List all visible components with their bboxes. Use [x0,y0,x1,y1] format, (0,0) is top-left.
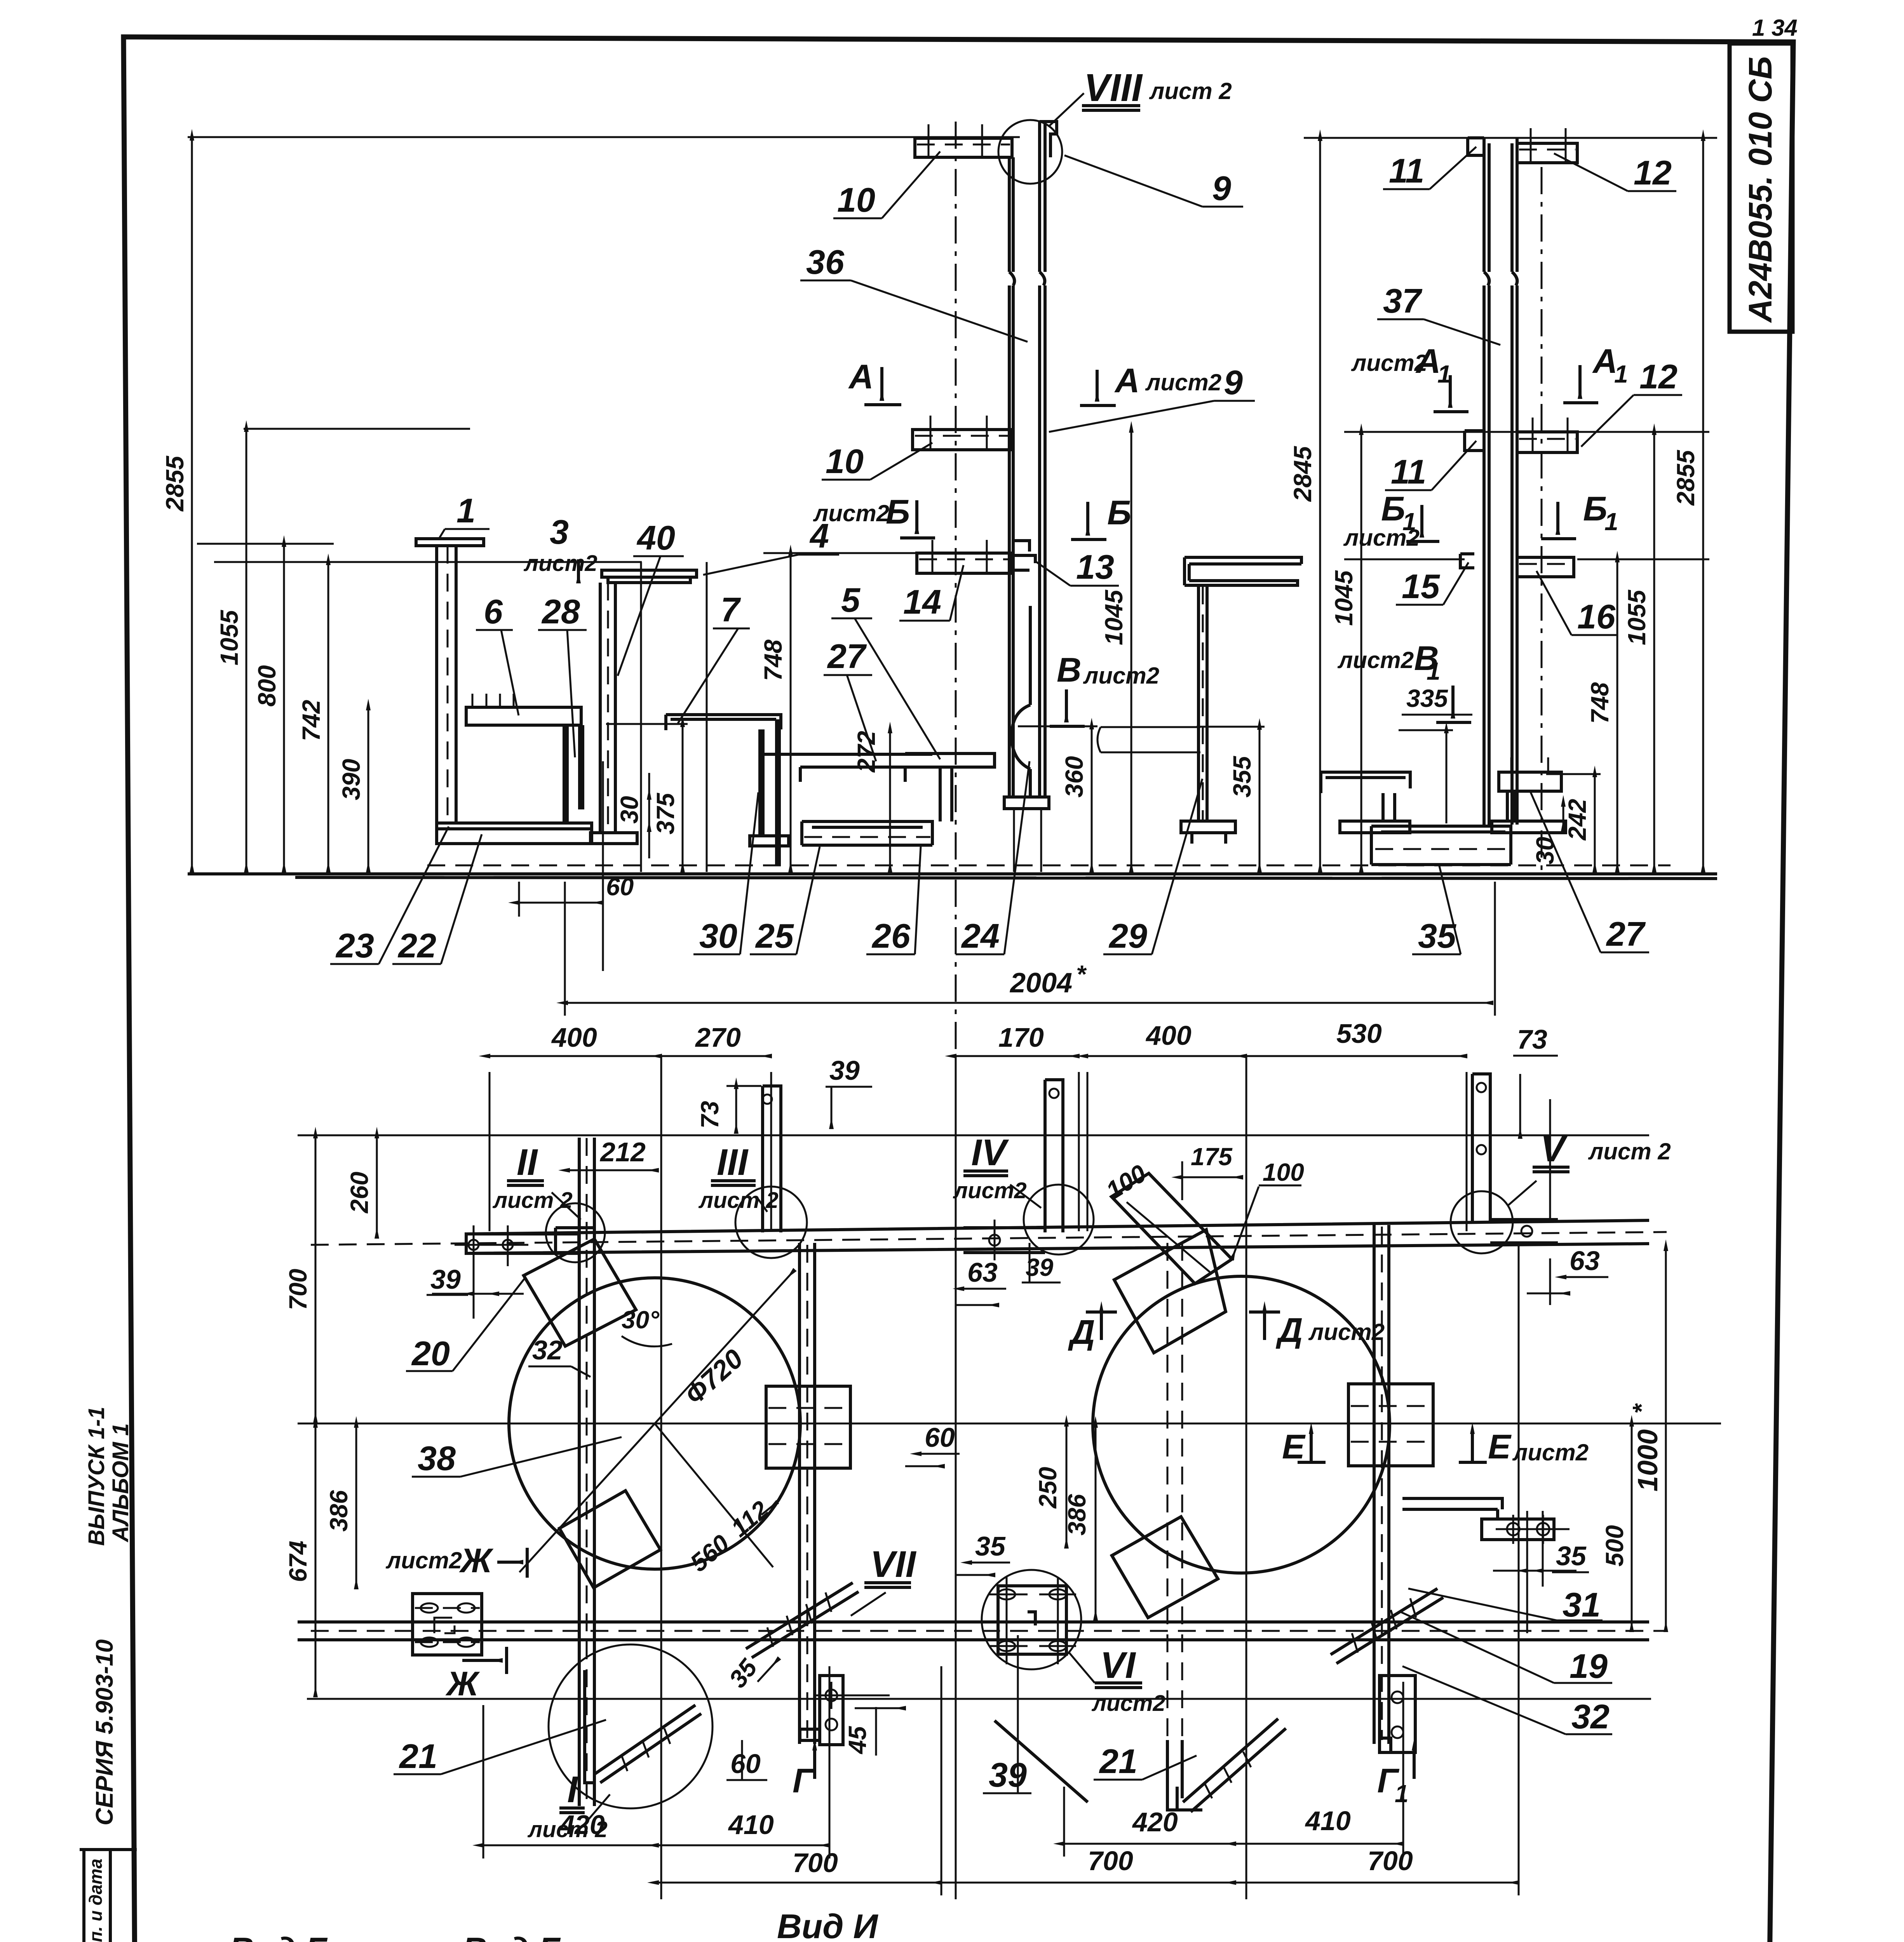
dim 60 bottom-left [726,1740,767,1780]
svg-text:38: 38 [418,1439,456,1477]
callout 30 [693,792,758,955]
svg-text:270: 270 [695,1022,741,1053]
svg-text:Е: Е [1488,1427,1512,1466]
level line right B1 [1344,559,1709,560]
svg-text:II: II [517,1142,538,1183]
callout 35 [1412,866,1461,955]
callout 13 [1035,548,1119,586]
marker E left [1282,1427,1326,1466]
svg-text:2855: 2855 [1672,449,1700,506]
svg-text:500: 500 [1601,1525,1629,1567]
callout 11 top [1383,147,1476,190]
svg-text:1045: 1045 [1330,570,1358,626]
svg-text:212: 212 [599,1137,646,1167]
dim 242 [1546,774,1601,872]
central bench plate [1185,557,1301,585]
callout 10 mid [822,442,932,480]
svg-text:Д: Д [1275,1311,1303,1349]
svg-text:Вид Г: Вид Г [462,1930,561,1942]
diag brace right [1331,1589,1443,1664]
svg-text:1045: 1045 [1100,589,1128,645]
plan top edge line [298,1135,1649,1136]
svg-text:1055: 1055 [215,609,243,665]
post 1 top plate [416,539,484,546]
circle left [509,1278,800,1569]
svg-text:Д: Д [1068,1313,1095,1351]
svg-text:390: 390 [337,759,365,800]
dim 35 right [1493,1541,1589,1572]
level line A (1045 left) [763,552,927,554]
svg-text:25: 25 [755,917,794,955]
svg-text:420: 420 [1132,1807,1178,1837]
tab II corner [546,1203,605,1262]
bottom diag brace left mirror [995,1721,1088,1802]
view I title [771,1907,890,1942]
plate 14c [917,540,1010,573]
callout 32 [528,1335,591,1377]
svg-text:СЕРИЯ 5.903-10: СЕРИЯ 5.903-10 [91,1639,118,1825]
post 36 bottom bracket 24 [1004,606,1049,872]
svg-text:10: 10 [837,181,875,219]
svg-text:Ж: Ж [459,1541,494,1580]
svg-text:лист2: лист2 [953,1178,1027,1203]
svg-text:1: 1 [456,491,476,530]
plate Zh [413,1594,482,1655]
callout 9 top [1064,155,1243,207]
center axis line [298,1423,1721,1425]
svg-text:*: * [1627,1403,1655,1414]
svg-text:30: 30 [1531,837,1559,864]
vertical post mid plan [800,1243,815,1744]
callout 32 right [1402,1666,1612,1736]
svg-text:20: 20 [411,1334,450,1373]
dim 375 [606,724,688,872]
svg-text:А: А [848,357,874,396]
level line 742 [214,562,707,872]
svg-text:лист2: лист2 [1337,647,1414,673]
bench 6 plate [466,694,581,725]
base channel 22 [437,823,592,844]
detail circle VI left [982,1570,1081,1669]
svg-text:лист2: лист2 [1308,1319,1385,1345]
dim 2845 [1289,140,1320,872]
section A1 right [1563,342,1628,403]
callout 40 [618,519,684,676]
post 37 centerline [1541,167,1543,874]
dim 45 [843,1707,905,1756]
bench 29 plate [1097,727,1200,752]
section B left [813,492,935,538]
svg-text:175: 175 [1191,1143,1233,1171]
svg-text:530: 530 [1336,1018,1382,1049]
svg-text:1055: 1055 [1623,589,1651,645]
dim 39 top [826,1055,872,1128]
left dim 260 [345,1138,377,1238]
svg-text:23: 23 [335,926,374,965]
dim 272 [852,731,890,872]
tab V [1451,1074,1558,1253]
svg-text:13: 13 [1076,548,1114,586]
bracket 13 [1013,541,1035,570]
svg-text:386: 386 [325,1490,353,1531]
diag 560 left [655,1423,777,1577]
callout 1 [438,491,490,540]
bottom diag brace right [1177,1719,1286,1812]
dim 60 mid [905,1422,960,1466]
svg-text:12: 12 [1639,357,1678,396]
callout 22 [392,834,482,965]
marker D left [1068,1312,1117,1351]
bench 27 right [1492,757,1566,833]
plate 15-16 [1460,554,1574,577]
extension verticals right [1527,1511,1543,1633]
dim 1000 right [1627,1250,1666,1631]
callout 7 [678,590,750,723]
svg-text:9: 9 [1212,169,1231,207]
svg-text:3: 3 [550,513,569,551]
callout 9 mid [1049,363,1255,432]
channel 25-26 [802,821,932,845]
post 36 centerline [955,122,957,1060]
callout 39 bottom [983,1635,1031,1794]
vertical post right plan [1374,1225,1389,1744]
svg-text:лист2: лист2 [1512,1439,1589,1465]
svg-text:12: 12 [1634,153,1672,192]
dim 2855 left [161,140,192,872]
svg-text:Б: Б [1583,489,1607,528]
svg-text:39: 39 [430,1264,461,1295]
svg-text:1 34: 1 34 [1752,15,1798,41]
svg-text:V: V [1540,1128,1568,1169]
svg-text:А24В055. 010 СБ: А24В055. 010 СБ [1742,56,1779,323]
svg-text:45: 45 [843,1726,871,1755]
bottom dims 420/410 right [1064,1682,1403,1857]
svg-text:700: 700 [1367,1846,1413,1876]
top extension line right [1304,137,1717,139]
bench left of post37 [1321,772,1410,833]
svg-text:29: 29 [1108,917,1147,955]
svg-text:63: 63 [1570,1246,1600,1276]
callout 29 [1103,779,1202,955]
svg-text:21: 21 [399,1737,437,1775]
callout 38 [412,1437,622,1477]
top beam [311,1220,1667,1253]
callout 10 top [833,151,940,219]
marker Zh bottom [445,1647,507,1703]
callout 5 [831,581,940,759]
svg-text:32: 32 [1571,1697,1610,1736]
svg-text:260: 260 [345,1172,373,1214]
dim 800 [253,546,284,872]
svg-text:60: 60 [925,1422,955,1453]
svg-text:15: 15 [1402,567,1440,606]
dim 63 right [1527,1246,1608,1305]
top dim row 400/530 [1087,1018,1467,1899]
svg-text:лист2: лист2 [385,1547,462,1573]
callout 12 mid [1581,357,1682,447]
svg-text:1: 1 [1614,360,1628,388]
svg-text:7: 7 [721,590,741,629]
svg-text:2004: 2004 [1009,968,1072,999]
dim 742 [297,564,328,872]
svg-text:9: 9 [1224,363,1243,402]
svg-text:60: 60 [606,873,634,901]
callout 20 [406,1279,524,1373]
marker II [492,1142,581,1220]
svg-text:Г: Г [793,1761,815,1800]
bench 27 plates middle [762,754,932,782]
svg-text:36: 36 [806,243,845,281]
level line 1055 [244,428,470,430]
svg-text:21: 21 [1099,1742,1138,1780]
callout 28 [538,592,587,757]
svg-text:6: 6 [484,592,503,631]
dim 73 mid rotated [696,1086,761,1133]
svg-text:170: 170 [998,1022,1044,1053]
callout 27 right [1531,792,1649,953]
svg-text:VIII: VIII [1084,66,1143,110]
svg-text:73: 73 [696,1101,724,1128]
dim 73 right [1513,1024,1558,1220]
svg-text:лист2: лист2 [1145,369,1221,395]
callout 36 [800,243,1028,342]
rotated square lower-left [559,1491,660,1588]
svg-text:АЛЬБОМ 1: АЛЬБОМ 1 [108,1423,133,1543]
svg-text:24: 24 [961,917,1000,955]
vertical post left plan [579,1138,594,1806]
dim 35 mid [956,1531,1010,1575]
marker Zh top [385,1541,527,1580]
svg-text:748: 748 [1586,682,1614,724]
svg-text:400: 400 [551,1022,597,1053]
dim 748 right [1586,562,1617,872]
callout 6 [476,592,519,715]
svg-text:73: 73 [1517,1024,1547,1055]
svg-text:30: 30 [699,917,737,955]
svg-text:лист2: лист2 [1091,1691,1165,1716]
part 5 plate [905,753,995,821]
callout 11 mid [1385,441,1476,491]
svg-text:700: 700 [284,1269,312,1310]
svg-text:1: 1 [1427,657,1441,685]
svg-text:В: В [1057,651,1082,689]
dim 1055 right [1623,434,1654,872]
svg-text:VII: VII [870,1544,917,1585]
dim 386 right [1063,1427,1096,1620]
svg-text:ВЫПУСК 1-1: ВЫПУСК 1-1 [84,1407,109,1546]
svg-text:37: 37 [1383,282,1423,320]
section A left [848,357,901,405]
svg-text:10: 10 [826,442,864,480]
svg-text:1000: 1000 [1632,1429,1664,1491]
dim 30 left [615,773,649,858]
callout 15 [1396,562,1469,606]
phi720 diagonal left [519,1270,794,1572]
dim 35 brace left [723,1653,779,1693]
dim 748 center [759,555,791,872]
svg-text:лист2: лист2 [1083,663,1159,689]
plate 10 mid [913,416,1012,450]
section A1 left [1351,342,1469,412]
marker III [698,1142,779,1213]
left dim 700 [284,1138,315,1422]
svg-text:748: 748 [759,639,787,681]
central bench leg [1181,585,1235,844]
svg-text:355: 355 [1228,755,1256,797]
section A right [1080,361,1221,405]
svg-text:Вид Г: Вид Г [229,1930,328,1942]
view G title [223,1930,328,1942]
level line right A1 [1344,431,1709,433]
svg-text:VI: VI [1100,1644,1136,1686]
level line 800 [197,543,334,545]
svg-text:800: 800 [253,665,281,707]
foot G1 [1380,1676,1415,1752]
hatched plate right [1348,1384,1433,1466]
svg-text:1: 1 [1604,508,1618,536]
svg-text:35: 35 [1418,917,1456,955]
svg-text:27: 27 [827,637,867,675]
svg-text:лист2: лист2 [1343,525,1420,551]
svg-text:19: 19 [1570,1647,1608,1685]
post 37 [1484,138,1517,825]
dim 2004 [565,882,1495,1016]
document number box (top right, rotated) [1730,44,1793,332]
marker G1 [1377,1750,1414,1808]
dim 39 mid2 [1022,1243,1061,1282]
baseline [188,865,1717,879]
svg-text:700: 700 [793,1848,838,1878]
section B1 right [1541,489,1618,539]
svg-text:700: 700 [1088,1846,1133,1876]
svg-text:30: 30 [615,796,643,823]
svg-text:30°: 30° [622,1306,659,1334]
callout 12 top [1554,153,1676,192]
bottom dims 420/410 left [483,1666,829,1858]
left end bracket [455,1225,579,1319]
svg-text:39: 39 [989,1756,1027,1794]
svg-text:27: 27 [1606,915,1646,953]
post 1 stem [437,546,456,823]
svg-text:I: I [567,1769,578,1810]
svg-text:11: 11 [1391,452,1426,491]
marker IV [953,1132,1041,1208]
left margin stamp boxes [84,1850,137,1942]
hatched plate left [766,1386,850,1468]
top dim row 170 [956,1022,1079,1899]
svg-text:14: 14 [903,583,941,621]
bench 7 plate [666,715,781,730]
callout 21 right [1094,1742,1197,1780]
dim 60 bottom [519,761,634,971]
svg-text:375: 375 [652,792,679,834]
dim 335 [1399,684,1472,823]
callout 16 [1536,571,1618,636]
callout 3 [523,513,598,583]
svg-text:742: 742 [297,700,325,741]
svg-text:31: 31 [1563,1585,1601,1624]
svg-text:16: 16 [1577,597,1616,636]
marker VI left [1069,1644,1165,1716]
marker V [1507,1128,1671,1206]
bench 7 legs [750,719,789,866]
callout 19 [1401,1612,1612,1685]
rotated square right top [1111,1173,1232,1284]
dim 355 [1197,727,1265,872]
central post 36 [1009,122,1057,797]
dim 2855 right [1672,140,1703,872]
marker G [793,1750,815,1800]
svg-text:1: 1 [1395,1780,1409,1808]
callout 21 left [394,1720,606,1775]
bottom rail [298,1622,1667,1640]
marker D right [1249,1311,1385,1349]
marker I [527,1769,610,1842]
dim 30 right [1531,806,1563,865]
callout 27 center [824,637,876,761]
diag brace left [746,1583,859,1658]
svg-text:2845: 2845 [1289,445,1317,502]
dim 212 [569,1137,658,1170]
dim 500 right [1601,1426,1632,1631]
svg-text:250: 250 [1034,1467,1062,1509]
svg-text:32: 32 [532,1335,563,1365]
rotated square 20 [524,1239,636,1346]
view G1 title [456,1930,571,1942]
svg-text:лист 2: лист 2 [1149,78,1232,104]
svg-text:III: III [717,1142,749,1183]
dim 39 left [427,1264,524,1295]
bench 6 legs [564,725,583,823]
svg-text:26: 26 [871,917,911,955]
dim 1045 right [1330,434,1361,872]
left dim 386 [325,1427,356,1589]
svg-text:28: 28 [541,592,580,631]
svg-text:4: 4 [809,517,829,555]
svg-text:35: 35 [975,1531,1006,1561]
tab IV [963,1080,1094,1260]
plate 10 top [915,124,1012,157]
svg-text:335: 335 [1406,684,1448,712]
base channel 35 [1371,826,1511,865]
dim 390 [337,710,368,872]
svg-text:*: * [1076,960,1087,988]
dim 100-175-100 [1101,1143,1304,1259]
top dim row 400/270 [490,1022,771,1899]
svg-text:Б: Б [886,492,910,531]
marker VII [851,1544,917,1616]
rotated square right mid [1114,1230,1226,1353]
dim 63 mid [956,1257,1006,1305]
detail circle VIII [998,66,1232,184]
svg-text:Е: Е [1282,1427,1306,1466]
section V left [1050,651,1159,726]
svg-text:420: 420 [559,1810,605,1840]
callout 26 [866,847,921,955]
svg-text:410: 410 [1305,1806,1351,1836]
svg-text:22: 22 [397,926,436,965]
30 deg [622,1306,672,1347]
callout 4 [703,517,839,575]
svg-text:60: 60 [730,1749,761,1779]
section V1 [1337,639,1471,722]
svg-text:Вид И: Вид И [777,1907,878,1942]
tab III [735,1086,807,1258]
post 4 stem [591,583,637,844]
svg-text:А: А [1592,342,1618,380]
lower extension line [307,1698,1651,1700]
dim 360 [1018,726,1097,872]
